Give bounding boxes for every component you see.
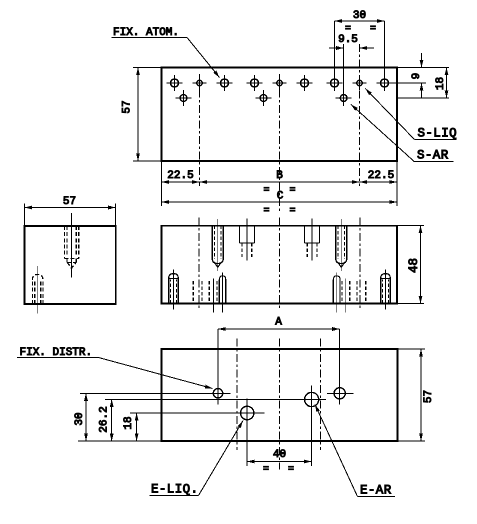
svg-text:=: = [263,186,269,197]
hole2 horizontal line [130,412,265,414]
svg-text:=: = [289,206,295,217]
svg-text:57: 57 [122,100,134,113]
top drilled hole right centerline [340,219,342,271]
dim 22.5 left line [162,181,200,183]
top drilled hole right [336,226,347,268]
dim 57 side extension stubs [25,204,116,226]
leader S-AR [351,104,414,161]
hole3 vertical line [311,386,313,467]
dim C line [162,201,398,203]
dim 18 right line [446,68,448,99]
shallow counterbore right centerline [311,219,313,261]
bottom view centerline b [319,339,321,451]
hole1 vertical line [217,329,219,405]
svg-text:30: 30 [353,10,366,22]
side view bottom hole hidden [32,275,43,305]
top drilled hole left [212,226,223,268]
centerline group 2 top view [279,74,281,213]
svg-text:30: 30 [74,412,86,425]
leader FIX. ATOM. [187,38,220,78]
hole2 vertical line [246,399,248,467]
hole3 horizontal line [105,399,326,401]
dim 30 extension lines [335,21,385,76]
svg-text:18: 18 [435,77,447,90]
centerline group 3 top view [359,44,361,186]
dim 40 line [247,461,311,463]
leader FIX. DISTR. [99,358,213,389]
hole row1 g1 center small [193,76,207,90]
right group hole centerlines below [337,273,346,313]
extension lines below top view [162,161,398,206]
svg-text:57: 57 [63,196,76,208]
svg-text:=: = [289,186,295,197]
hole1 horizontal line [80,392,231,394]
left group hole centerlines below [213,273,222,313]
dim B line [200,181,360,183]
dim 9 arrows [421,53,423,68]
svg-text:E-LIQ.: E-LIQ. [151,483,198,497]
dim 30 line [85,393,87,441]
side view outline [25,226,116,304]
hole row2 g1 [176,90,192,106]
hole row1 g2 left [247,75,263,91]
centerline group 1 top view [199,74,201,186]
bottom blind hole left [169,274,179,304]
dim 30 line [335,20,385,22]
shallow counterbore left centerline [246,219,248,261]
hidden passage lines bottom left group [193,281,217,304]
dim 57 left extension lines [133,68,162,162]
hole row1 g3 right [377,75,393,91]
shallow counterbore left [239,226,254,257]
svg-text:48: 48 [407,258,421,273]
hole row2 g2 [256,90,272,106]
svg-text:C: C [277,191,284,203]
svg-text:A: A [275,317,282,329]
hole row1 g3 center small [353,76,367,90]
svg-text:22.5: 22.5 [368,170,394,182]
svg-text:40: 40 [273,449,286,461]
svg-text:=: = [263,465,269,476]
svg-text:S-LIQ: S-LIQ [418,127,458,141]
svg-text:=: = [288,465,294,476]
svg-text:22.5: 22.5 [167,170,193,182]
top drilled hole left centerline [217,219,219,271]
svg-text:57: 57 [423,390,435,403]
bottom blind hole right centerline [385,270,387,310]
hole row1 g1 left [167,75,183,91]
leader E-AR [315,405,358,497]
right extensions for dim 57 [398,349,426,441]
svg-text:9.5: 9.5 [338,34,358,46]
shallow counterbore right [305,226,320,257]
svg-text:9: 9 [411,73,423,80]
dim 9.5 extension line [343,44,345,90]
hole1 FIX DISTR [213,389,222,398]
svg-text:=: = [263,206,269,217]
bottom view outline [162,349,398,441]
dim 26.2 line [111,400,113,442]
hole row1 g2 center small [273,76,287,90]
hole3 E-AR [305,392,319,406]
hole4 [334,388,345,399]
svg-text:=: = [370,24,376,35]
dim 9 right extension lines [393,68,450,84]
hole row1 g1 right [217,75,233,91]
svg-text:E-AR: E-AR [360,484,392,498]
side view top hole centerline [71,213,73,278]
front centerline group 3 [359,218,361,311]
front centerline group 1 [198,218,200,311]
svg-text:B: B [276,170,283,182]
hole4 vertical line [339,329,341,405]
hidden passage lines bottom right group [342,281,366,304]
dim 48 line [420,226,422,304]
dim 57 side line [25,207,116,209]
dim 9.5 arrows [329,47,344,49]
svg-text:S-AR: S-AR [417,149,449,163]
bottom view centerline a [236,339,238,451]
svg-text:26.2: 26.2 [98,406,110,432]
hole row1 g2 right [297,75,313,91]
plate outline top view [162,68,398,162]
dim 18 bottom line [136,413,138,441]
leader S-LIQ [365,89,414,140]
front view outline [162,226,398,304]
side view bottom hole centerline [37,266,39,314]
front centerline group 2 [279,218,281,311]
bottom blind hole left centerline [173,270,175,310]
side view top tapped hole hidden [65,226,79,268]
small bottom hole left group [219,276,225,304]
bottom edge extension left [78,440,162,442]
dim 18 right extension line [397,97,449,99]
dim A line [218,328,340,330]
leader E-LIQ. [199,421,244,496]
dim 22.5 right line [360,181,398,183]
small bottom hole right group [333,276,340,304]
hole4 horizontal crosshair [327,392,354,394]
dim 57 bottom right line [420,349,422,441]
dim 57 left line [137,68,139,162]
bottom blind hole right [381,274,391,304]
hole row2 g3 [336,90,352,106]
bottom view centerline mid [279,339,281,470]
svg-text:18: 18 [123,416,135,429]
hole row1 g3 left [327,75,343,91]
hole2 E-LIQ [241,406,254,419]
dim 48 extension lines [397,226,424,304]
